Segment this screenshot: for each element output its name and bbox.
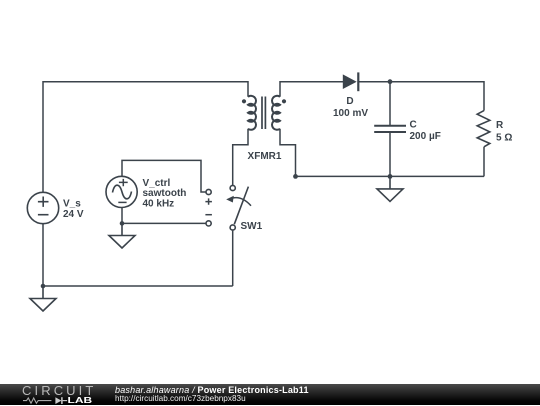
wire bottom-left rail <box>43 285 233 287</box>
label V_s 24 V <box>63 199 84 221</box>
footer bar <box>0 384 540 405</box>
resistor R <box>477 111 490 147</box>
svg-text:C: C <box>410 119 417 130</box>
svg-text:40 kHz: 40 kHz <box>143 199 175 210</box>
svg-text:100 mV: 100 mV <box>333 108 368 119</box>
svg-text:24 V: 24 V <box>63 209 84 220</box>
node junction secondary bottom <box>293 174 298 179</box>
svg-text:V_ctrl: V_ctrl <box>143 178 171 189</box>
wire transformer secondary bottom to bottom node <box>280 129 296 177</box>
node junction diode cathode / capacitor top <box>388 79 393 84</box>
capacitor C <box>374 126 406 132</box>
transformer XFMR1 secondary phase dot <box>282 99 286 103</box>
switch SW1 <box>226 185 251 230</box>
svg-text:sawtooth: sawtooth <box>143 188 187 199</box>
ground below V_ctrl <box>109 223 135 248</box>
wire capacitor top lead <box>389 82 391 126</box>
switch control minus terminal <box>206 221 211 226</box>
wire capacitor bottom lead <box>389 132 391 176</box>
svg-text:LAB: LAB <box>68 397 93 406</box>
transformer XFMR1 primary winding <box>248 96 256 130</box>
CircuitLab logo <box>22 385 96 406</box>
switch control plus terminal <box>206 189 211 194</box>
svg-text:SW1: SW1 <box>241 221 263 232</box>
transformer XFMR1 primary phase dot <box>242 99 246 103</box>
label C 200 uF <box>410 119 441 142</box>
svg-text:D: D <box>346 96 353 107</box>
svg-text:200 µF: 200 µF <box>410 131 441 142</box>
ground below V_s node <box>30 286 56 311</box>
switch control plus sign <box>205 198 212 204</box>
footer credits text <box>115 386 309 403</box>
svg-text:XFMR1: XFMR1 <box>248 151 282 162</box>
wire top rail from V_s to transformer primary <box>43 82 248 192</box>
node junction capacitor bottom <box>388 174 393 179</box>
diode D <box>343 72 359 91</box>
wire transformer primary bottom to switch top <box>233 129 248 185</box>
node junction V_s bottom rail <box>41 284 46 289</box>
transformer XFMR1 secondary winding <box>272 96 280 130</box>
wire diode cathode to resistor top <box>358 82 484 111</box>
transformer XFMR1 core <box>262 97 265 130</box>
voltage source V_s <box>27 192 58 223</box>
svg-text:5 Ω: 5 Ω <box>496 132 512 143</box>
svg-text:R: R <box>496 120 504 131</box>
switch control minus sign <box>205 214 212 216</box>
ground below capacitor <box>377 176 403 201</box>
node junction V_ctrl bottom <box>120 221 125 226</box>
wire V_ctrl bottom lead to switch control minus terminal <box>122 208 206 224</box>
wire V_ctrl top lead to switch control plus terminal <box>122 160 206 192</box>
svg-text:V_s: V_s <box>63 199 81 210</box>
wire transformer secondary top to diode <box>280 82 343 97</box>
label V_ctrl sawtooth 40 kHz <box>143 178 187 210</box>
wire bottom-right rail <box>296 175 485 177</box>
wire switch bottom lead <box>232 231 234 286</box>
wire V_s bottom to ground rail <box>42 224 44 286</box>
voltage source V_ctrl sawtooth <box>106 176 137 207</box>
label R 5 ohm <box>496 120 512 143</box>
label D 100 mV <box>333 96 368 119</box>
wire resistor bottom lead <box>483 147 485 177</box>
